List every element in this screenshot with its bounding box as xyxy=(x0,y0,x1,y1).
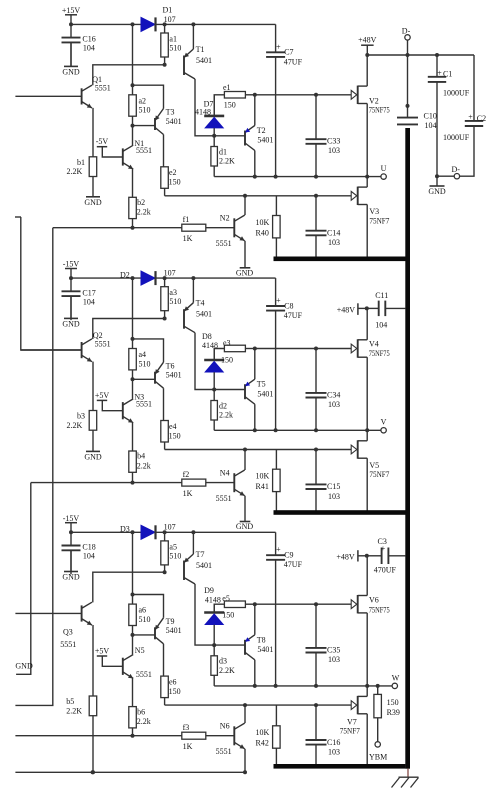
capacitor C34 xyxy=(306,347,341,431)
resistor e5 xyxy=(214,604,224,612)
wire f1 corner down xyxy=(15,228,52,706)
svg-text:+: + xyxy=(468,112,473,121)
wire collector N5 xyxy=(132,635,134,654)
svg-text:470UF: 470UF xyxy=(374,565,397,574)
svg-text:1000UF: 1000UF xyxy=(443,133,470,142)
svg-text:150: 150 xyxy=(169,431,181,440)
svg-text:-5V: -5V xyxy=(96,137,109,146)
wire V4 gate rail xyxy=(255,348,351,350)
svg-text:T1: T1 xyxy=(196,45,205,54)
label N5 xyxy=(135,646,152,679)
svg-text:D-: D- xyxy=(452,165,461,174)
wire base Q1 xyxy=(15,95,81,97)
ground under b1 xyxy=(84,177,102,208)
power +48V 1 xyxy=(358,36,377,57)
svg-text:C16: C16 xyxy=(327,738,340,747)
svg-text:D-: D- xyxy=(402,27,411,36)
wire collector N3 xyxy=(132,379,134,398)
svg-text:150: 150 xyxy=(222,611,234,620)
svg-text:e6: e6 xyxy=(169,677,177,686)
svg-text:+: + xyxy=(437,68,442,77)
ground right xyxy=(428,176,446,196)
svg-text:510: 510 xyxy=(139,106,151,115)
resistor f3 xyxy=(182,723,235,751)
svg-text:C33: C33 xyxy=(327,137,340,146)
svg-text:b2: b2 xyxy=(137,198,145,207)
svg-text:2.2K: 2.2K xyxy=(219,157,235,166)
power +5V 3 xyxy=(95,646,123,666)
resistor d3 xyxy=(211,645,235,686)
transistor T7 xyxy=(184,532,212,584)
svg-text:75NF7: 75NF7 xyxy=(369,470,389,479)
svg-text:2.2k: 2.2k xyxy=(219,411,233,420)
transistor N4 xyxy=(216,469,245,503)
svg-text:D1: D1 xyxy=(163,6,173,15)
svg-text:C18: C18 xyxy=(82,543,95,552)
label Q3 xyxy=(60,628,76,650)
ground under N4 xyxy=(236,496,254,531)
transistor T1 xyxy=(184,24,212,79)
svg-text:C11: C11 xyxy=(375,291,388,300)
svg-text:-15V: -15V xyxy=(63,514,80,523)
wire collector Q3 xyxy=(93,572,165,602)
svg-text:d2: d2 xyxy=(219,401,227,410)
svg-text:R39: R39 xyxy=(387,708,400,717)
wire a6 column xyxy=(131,532,135,604)
wire f2 corner down xyxy=(15,483,33,675)
wire a2 column xyxy=(131,24,135,94)
svg-text:+: + xyxy=(381,544,386,553)
wire +rail 3 xyxy=(71,530,276,534)
svg-text:10K: 10K xyxy=(256,728,270,737)
svg-text:GND: GND xyxy=(15,661,33,670)
resistor a3 xyxy=(161,278,182,320)
svg-text:GND: GND xyxy=(62,320,80,329)
svg-text:C10: C10 xyxy=(424,111,437,120)
label N1 xyxy=(134,139,152,155)
svg-text:5551: 5551 xyxy=(136,670,152,679)
svg-text:47UF: 47UF xyxy=(284,57,303,66)
svg-text:5401: 5401 xyxy=(196,56,212,65)
svg-text:V5: V5 xyxy=(369,461,379,470)
svg-text:5551: 5551 xyxy=(60,640,76,649)
transistor N6 xyxy=(216,722,245,756)
ground under C17 xyxy=(62,296,80,329)
power +5V 2 xyxy=(95,391,123,411)
svg-text:a4: a4 xyxy=(139,350,147,359)
svg-text:103: 103 xyxy=(328,238,340,247)
wire node stub block1 xyxy=(15,217,82,350)
power -15V rail 2 xyxy=(63,260,80,281)
svg-text:U: U xyxy=(381,164,387,173)
resistor b3 xyxy=(67,362,97,431)
resistor e2 xyxy=(161,135,181,196)
svg-text:75NF7: 75NF7 xyxy=(340,726,360,735)
svg-text:107: 107 xyxy=(164,15,176,24)
svg-text:+48V: +48V xyxy=(336,553,355,562)
svg-text:104: 104 xyxy=(83,44,95,53)
svg-text:a2: a2 xyxy=(139,96,147,105)
svg-text:N5: N5 xyxy=(135,646,145,655)
ground under C18 xyxy=(62,550,80,581)
wire thick bus vertical xyxy=(405,128,410,769)
svg-text:V7: V7 xyxy=(347,718,357,727)
wire to T6 emitter xyxy=(133,339,164,362)
wire collector N6 xyxy=(243,703,247,723)
svg-text:+5V: +5V xyxy=(95,391,110,400)
power -15V rail 3 xyxy=(63,514,80,535)
diode D3 xyxy=(120,523,176,540)
wire f2 rail xyxy=(31,482,182,484)
wire f3 rail xyxy=(15,735,181,737)
svg-text:+: + xyxy=(276,545,281,554)
svg-text:2.2k: 2.2k xyxy=(137,717,151,726)
resistor a2 xyxy=(129,95,151,128)
wire V6 gate rail xyxy=(255,603,351,605)
earth ground symbol xyxy=(392,769,419,788)
svg-text:150: 150 xyxy=(169,178,181,187)
capacitor C33 xyxy=(306,93,341,177)
wire V3 gate rail xyxy=(165,194,352,198)
wire collector T7 xyxy=(195,584,245,647)
svg-text:f1: f1 xyxy=(183,215,190,224)
wire f1 rail xyxy=(53,227,182,229)
svg-text:C35: C35 xyxy=(327,645,340,654)
svg-text:103: 103 xyxy=(328,492,340,501)
svg-text:2.2k: 2.2k xyxy=(137,208,151,217)
resistor f1 xyxy=(182,215,235,243)
svg-text:e2: e2 xyxy=(169,168,177,177)
resistor d1 xyxy=(211,136,235,177)
resistor a6 xyxy=(129,604,151,637)
transistor T4 xyxy=(184,278,212,333)
wire collector Q1 xyxy=(93,65,165,86)
wire collector N4 xyxy=(243,448,247,471)
svg-text:C9: C9 xyxy=(284,551,293,560)
wire V7 gate rail xyxy=(165,703,352,707)
svg-text:2.2K: 2.2K xyxy=(219,666,235,675)
svg-text:V4: V4 xyxy=(369,339,379,348)
svg-text:2.2K: 2.2K xyxy=(66,706,82,715)
svg-text:150: 150 xyxy=(221,355,233,364)
wire to T9 emitter xyxy=(133,595,164,618)
svg-text:510: 510 xyxy=(169,551,181,560)
wire collector T5 xyxy=(253,404,257,432)
label D9 xyxy=(204,586,221,604)
wire collector T8 xyxy=(253,660,257,688)
mosfet V4 xyxy=(351,308,390,430)
svg-text:R41: R41 xyxy=(256,482,269,491)
svg-text:f3: f3 xyxy=(183,723,190,732)
wire base Q3 xyxy=(15,612,81,614)
terminal U xyxy=(381,164,387,179)
mosfet V3 xyxy=(351,177,389,257)
ground under C16 xyxy=(62,42,80,76)
svg-text:e3: e3 xyxy=(223,338,231,347)
svg-text:f2: f2 xyxy=(183,470,190,479)
capacitor C3 xyxy=(367,537,406,574)
wire base T3 xyxy=(133,125,156,127)
svg-text:D8: D8 xyxy=(202,332,212,341)
svg-text:5401: 5401 xyxy=(196,561,212,570)
transistor T6 xyxy=(155,361,182,388)
diode D7 xyxy=(204,95,224,136)
svg-text:47UF: 47UF xyxy=(284,560,303,569)
svg-text:150: 150 xyxy=(387,698,399,707)
label N3 xyxy=(134,393,152,409)
svg-text:YBM: YBM xyxy=(369,752,387,761)
svg-text:GND: GND xyxy=(236,522,254,531)
mosfet V2 xyxy=(351,55,390,177)
resistor R40 xyxy=(256,196,281,257)
svg-text:e5: e5 xyxy=(222,594,230,603)
svg-text:V2: V2 xyxy=(369,96,379,105)
svg-text:5401: 5401 xyxy=(196,310,212,319)
svg-text:5401: 5401 xyxy=(166,117,182,126)
svg-text:103: 103 xyxy=(328,400,340,409)
resistor e4 xyxy=(161,388,181,449)
transistor Q1 xyxy=(82,85,92,108)
svg-text:b6: b6 xyxy=(137,707,145,716)
svg-text:104: 104 xyxy=(83,297,95,306)
resistor a4 xyxy=(129,349,151,382)
svg-text:+: + xyxy=(276,42,281,51)
wire thick gnd rail 3 xyxy=(274,764,406,769)
resistor e6 xyxy=(161,644,181,705)
transistor N2 xyxy=(216,214,245,248)
svg-text:47UF: 47UF xyxy=(284,311,303,320)
svg-text:b5: b5 xyxy=(66,697,74,706)
resistor b5 xyxy=(66,625,97,774)
svg-text:104: 104 xyxy=(425,121,437,130)
svg-text:a3: a3 xyxy=(169,288,177,297)
power -5V 1 xyxy=(96,137,123,157)
transistor N5 xyxy=(123,655,133,679)
resistor b2 xyxy=(129,197,151,229)
svg-text:5551: 5551 xyxy=(216,747,232,756)
wire V5 gate rail xyxy=(165,448,352,452)
svg-text:1K: 1K xyxy=(183,489,193,498)
svg-text:5551: 5551 xyxy=(216,239,232,248)
wire collector T4 xyxy=(195,333,245,392)
wire collector N2 xyxy=(243,194,247,215)
terminal D- top xyxy=(402,27,411,55)
svg-text:C1: C1 xyxy=(443,70,452,79)
transistor T5 xyxy=(245,349,273,405)
svg-text:5551: 5551 xyxy=(95,84,111,93)
wire emitter N1 xyxy=(132,169,134,197)
capacitor C11 xyxy=(367,291,406,330)
svg-text:-15V: -15V xyxy=(63,260,80,269)
svg-text:150: 150 xyxy=(169,687,181,696)
wire to T3 emitter xyxy=(133,85,164,108)
svg-text:510: 510 xyxy=(169,297,181,306)
terminal D- bottom xyxy=(437,165,460,179)
svg-text:5551: 5551 xyxy=(136,400,152,409)
resistor a1 xyxy=(161,24,182,66)
svg-text:10K: 10K xyxy=(256,472,270,481)
resistor b6 xyxy=(129,707,151,738)
svg-text:T4: T4 xyxy=(196,299,205,308)
wire base T9 xyxy=(133,634,156,636)
svg-text:C15: C15 xyxy=(327,482,340,491)
svg-text:GND: GND xyxy=(428,187,446,196)
svg-text:75NF75: 75NF75 xyxy=(369,605,390,614)
ground under N2 xyxy=(236,241,254,278)
svg-text:+15V: +15V xyxy=(62,6,81,15)
mosfet V7 xyxy=(340,686,367,766)
svg-text:103: 103 xyxy=(328,747,340,756)
terminal YBM xyxy=(369,742,387,762)
diode D9 xyxy=(204,604,224,645)
svg-text:N6: N6 xyxy=(220,722,230,731)
capacitor C2 xyxy=(443,55,486,176)
power +15V rail 1 xyxy=(62,6,81,27)
power +48V 3 xyxy=(336,550,368,561)
capacitor C1 xyxy=(428,55,470,178)
svg-text:5401: 5401 xyxy=(166,371,182,380)
ground under b3 xyxy=(84,430,102,461)
wire base T6 xyxy=(133,378,156,380)
svg-text:e4: e4 xyxy=(169,422,177,431)
svg-text:b3: b3 xyxy=(77,412,85,421)
svg-text:N4: N4 xyxy=(220,469,230,478)
svg-text:1K: 1K xyxy=(183,234,193,243)
svg-text:b1: b1 xyxy=(77,158,85,167)
capacitor C16 xyxy=(306,705,341,766)
svg-text:510: 510 xyxy=(169,43,181,52)
svg-text:V3: V3 xyxy=(369,207,379,216)
svg-text:a6: a6 xyxy=(139,606,147,615)
svg-text:+: + xyxy=(276,296,281,305)
power +48V 2 xyxy=(337,303,369,315)
svg-text:+48V: +48V xyxy=(337,305,356,314)
capacitor C9 xyxy=(266,532,302,686)
svg-text:GND: GND xyxy=(62,68,80,77)
label Q2 xyxy=(93,331,111,348)
svg-text:d3: d3 xyxy=(219,657,227,666)
diode D8 xyxy=(204,349,224,390)
capacitor C16 xyxy=(62,24,96,66)
wire collector T2 xyxy=(253,151,257,179)
svg-text:5551: 5551 xyxy=(136,146,152,155)
resistor b1 xyxy=(67,108,97,177)
svg-text:510: 510 xyxy=(139,615,151,624)
wire emitter N5 xyxy=(132,678,134,706)
label D8 xyxy=(202,332,218,350)
svg-text:5401: 5401 xyxy=(257,389,273,398)
wire thick gnd rail 1 xyxy=(274,257,411,262)
resistor e1 xyxy=(214,95,224,116)
transistor T3 xyxy=(155,108,182,135)
svg-text:10K: 10K xyxy=(256,218,270,227)
svg-text:T8: T8 xyxy=(257,635,266,644)
svg-text:V: V xyxy=(381,418,387,427)
wire +48V rail 1 xyxy=(367,53,474,57)
svg-text:T5: T5 xyxy=(257,380,266,389)
wire emitter N6 xyxy=(243,749,247,775)
resistor e1 body xyxy=(223,83,257,109)
svg-text:GND: GND xyxy=(236,268,254,277)
wire collector N1 xyxy=(132,126,134,145)
svg-text:107: 107 xyxy=(164,523,176,532)
svg-text:T6: T6 xyxy=(166,361,175,370)
resistor R39 xyxy=(374,684,400,742)
label D7 xyxy=(195,99,213,116)
svg-text:2.2K: 2.2K xyxy=(67,167,83,176)
svg-text:2.2k: 2.2k xyxy=(137,461,151,470)
transistor N1 xyxy=(123,145,133,169)
svg-text:C34: C34 xyxy=(327,390,340,399)
transistor N3 xyxy=(123,399,133,423)
svg-text:150: 150 xyxy=(224,100,236,109)
mosfet V5 xyxy=(351,430,389,510)
svg-text:V6: V6 xyxy=(369,596,379,605)
capacitor C7 xyxy=(266,24,302,176)
svg-text:R42: R42 xyxy=(256,739,269,748)
resistor f2 xyxy=(182,470,235,498)
svg-text:C7: C7 xyxy=(284,48,293,57)
wire bottom rail xyxy=(15,770,245,774)
capacitor C18 xyxy=(62,532,96,574)
wire emitter N3 xyxy=(132,423,134,451)
svg-text:d1: d1 xyxy=(219,147,227,156)
resistor R42 xyxy=(256,705,281,766)
svg-text:75NF75: 75NF75 xyxy=(369,349,390,358)
capacitor C35 xyxy=(306,602,341,686)
wire V rail xyxy=(214,428,381,432)
capacitor C10 xyxy=(397,55,437,130)
svg-text:C14: C14 xyxy=(327,229,340,238)
label Q1 xyxy=(92,75,111,92)
svg-text:5401: 5401 xyxy=(166,626,182,635)
svg-text:103: 103 xyxy=(328,146,340,155)
transistor T8 xyxy=(245,604,273,660)
resistor e5 body xyxy=(222,594,256,620)
svg-text:T2: T2 xyxy=(257,126,266,135)
transistor Q2 xyxy=(82,339,92,362)
svg-text:104: 104 xyxy=(375,321,387,330)
svg-text:510: 510 xyxy=(139,359,151,368)
svg-text:103: 103 xyxy=(328,655,340,664)
terminal V xyxy=(381,418,387,433)
wire +rail 2 xyxy=(71,276,276,280)
svg-text:D2: D2 xyxy=(120,271,130,280)
svg-text:75NF7: 75NF7 xyxy=(369,216,389,225)
diode D1 xyxy=(141,6,176,32)
svg-text:D3: D3 xyxy=(120,525,130,534)
transistor Q3 xyxy=(82,602,92,625)
wire W rail xyxy=(214,684,392,688)
terminal W xyxy=(392,673,400,688)
resistor b4 xyxy=(129,451,151,485)
svg-text:R40: R40 xyxy=(256,228,269,237)
resistor d2 xyxy=(211,390,233,431)
svg-text:GND: GND xyxy=(62,573,80,582)
svg-text:4148: 4148 xyxy=(195,107,211,116)
svg-text:T3: T3 xyxy=(166,108,175,117)
wire base Q2 xyxy=(21,349,82,351)
svg-text:a5: a5 xyxy=(169,542,177,551)
capacitor C8 xyxy=(266,278,302,430)
wire V2 gate rail xyxy=(255,94,351,96)
svg-text:b4: b4 xyxy=(137,452,145,461)
svg-text:T9: T9 xyxy=(166,617,175,626)
svg-text:N2: N2 xyxy=(220,214,230,223)
svg-text:75NF75: 75NF75 xyxy=(369,106,390,115)
wire collector Q2 xyxy=(93,319,165,340)
capacitor C15 xyxy=(306,450,341,511)
